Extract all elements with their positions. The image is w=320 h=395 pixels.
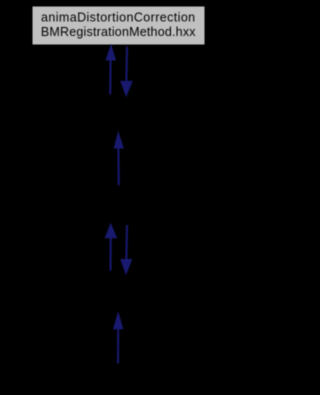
svg-text:animaDistortionCorrection: animaDistortionCorrection (41, 10, 196, 24)
svg-text:BMRegistrationMethod.hxx: BMRegistrationMethod.hxx (41, 25, 196, 39)
